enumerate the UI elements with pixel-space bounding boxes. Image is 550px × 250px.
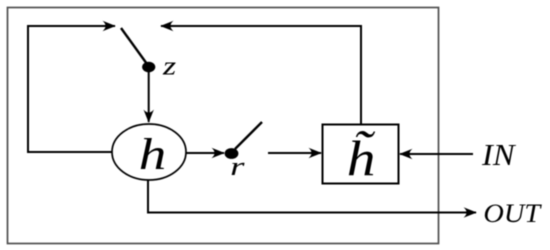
- svg-text:z: z: [162, 51, 177, 80]
- node z dot: [142, 62, 155, 73]
- svg-text:IN: IN: [481, 138, 516, 172]
- wire: arrow from z dot down into h: [148, 71, 150, 122]
- wire: arrow into switch z from left: [104, 25, 115, 27]
- wire: arrow from switch r to h-tilde box: [268, 152, 321, 154]
- candidate unit h-tilde (box U1): [323, 125, 399, 184]
- wire: feedback loop from h left side up and across top: [28, 26, 113, 152]
- wire: top feedback from h-tilde box, across top to switch z: [172, 26, 361, 124]
- svg-text:h: h: [139, 130, 167, 179]
- svg-text:r: r: [230, 152, 245, 180]
- wire: OUT arrowhead: [465, 212, 476, 214]
- outer frame border: [8, 8, 439, 244]
- svg-text:OUT: OUT: [483, 199, 542, 228]
- node r dot: [225, 148, 239, 159]
- wire: IN input line: [400, 153, 473, 155]
- wire: arrow from h right side to switch r: [186, 152, 224, 154]
- svg-text:h̃: h̃: [347, 130, 376, 186]
- wire: arrow into switch z from right: [161, 25, 172, 27]
- state unit h (ellipse): [112, 124, 186, 180]
- wire: OUT line from h bottom: [148, 180, 465, 213]
- switch r blade: [235, 122, 262, 149]
- switch z blade: [121, 28, 147, 64]
